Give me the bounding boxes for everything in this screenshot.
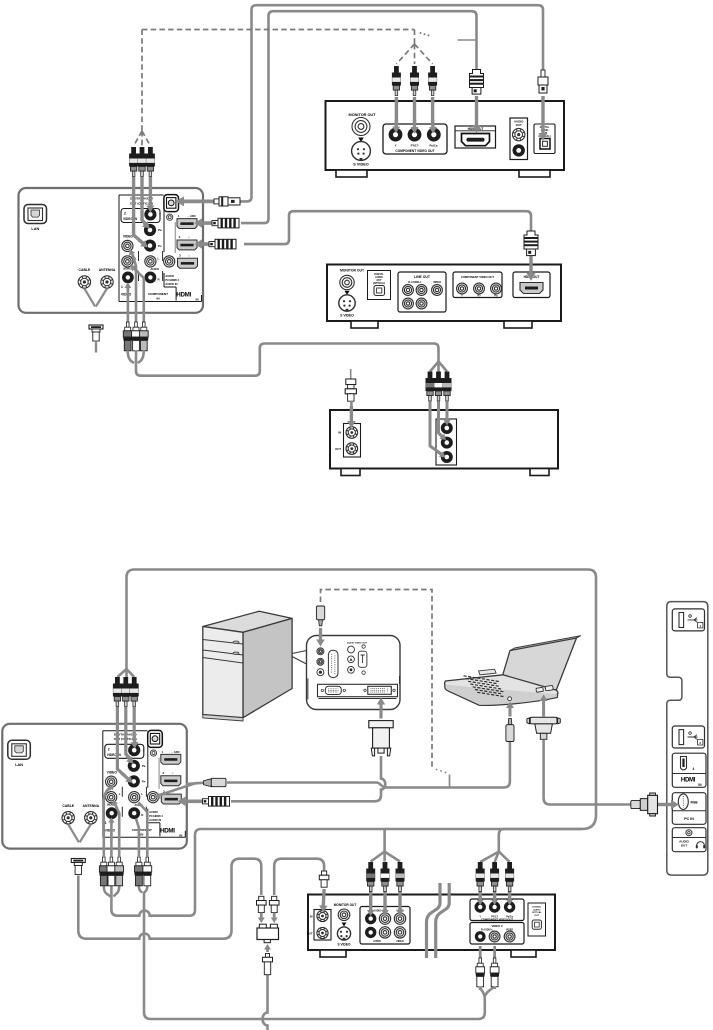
svg-text:OPTICAL: OPTICAL bbox=[532, 911, 542, 914]
dots on dashed cable bbox=[420, 32, 422, 34]
DVI plug into PC bbox=[377, 698, 385, 719]
device A component plug leads bbox=[395, 97, 398, 124]
optical plug into device A bbox=[539, 96, 548, 141]
device B component video out box bbox=[453, 272, 502, 298]
svg-text:VIDEO: VIDEO bbox=[396, 940, 404, 943]
PC DVI port bbox=[368, 686, 392, 694]
HDMI plug into TV1 port2 bbox=[195, 239, 212, 249]
device D cable box rear bbox=[308, 895, 555, 958]
RCA plugs below TV1 bbox=[123, 322, 132, 351]
TV2 component plug fan bbox=[117, 669, 134, 677]
device D optical out bbox=[528, 903, 546, 936]
PC VGA port bbox=[325, 686, 341, 694]
svg-text:COMPONENT VIDEO OUT: COMPONENT VIDEO OUT bbox=[461, 275, 494, 279]
TV1 video/audio cables to bottom plugs bbox=[132, 252, 137, 331]
svg-text:RGB: RGB bbox=[691, 801, 699, 805]
antenna splitter bbox=[257, 924, 279, 943]
TV side panel bbox=[667, 602, 708, 876]
RCA plugs into TV2 component in bbox=[113, 677, 122, 707]
svg-text:(OPTICAL): (OPTICAL) bbox=[373, 282, 385, 285]
callout pointer bbox=[292, 651, 306, 665]
TV2 video/audio jack leads to bottom plugs bbox=[104, 787, 112, 858]
device D AV plug leads bbox=[369, 887, 372, 913]
device B DVD player rear bbox=[327, 265, 561, 329]
svg-text:IN: IN bbox=[310, 915, 313, 919]
device B S VIDEO connector bbox=[339, 295, 355, 311]
wire component long TV2 to device D bbox=[127, 570, 597, 852]
svg-text:OUT: OUT bbox=[681, 844, 688, 848]
device A optical out port bbox=[534, 124, 555, 154]
TV2 antenna plug bbox=[71, 859, 85, 875]
PC video card bar bbox=[308, 676, 400, 700]
side panel USB 1 port bbox=[672, 609, 704, 631]
splitter feed plug bbox=[264, 944, 271, 952]
svg-text:R-AUDIO-L: R-AUDIO-L bbox=[408, 280, 422, 284]
device D RF box bbox=[314, 910, 331, 941]
HDMI plug into TV2 port3 bbox=[178, 797, 203, 807]
TV2 rear panel bbox=[2, 724, 187, 849]
side panel AUDIO OUT bbox=[672, 828, 706, 852]
PC audio dashed route bbox=[321, 590, 433, 768]
device A digital recorder rear bbox=[326, 101, 565, 177]
PC rear callout box bbox=[307, 636, 401, 710]
HDMI plug into device A bbox=[472, 96, 481, 133]
svg-text:OUT: OUT bbox=[307, 932, 313, 936]
svg-text:AUDIO: AUDIO bbox=[373, 940, 381, 943]
svg-text:IN: IN bbox=[338, 431, 341, 435]
RCA plugs into TV1 component in bbox=[129, 147, 138, 177]
svg-text:VIDEO 2: VIDEO 2 bbox=[491, 924, 502, 928]
laptop audio cable to TV2 bbox=[227, 741, 510, 788]
device B LINE OUT box bbox=[398, 272, 446, 312]
svg-text:DIGITAL: DIGITAL bbox=[533, 906, 542, 909]
laptop VGA cable to side panel bbox=[544, 740, 631, 805]
svg-text:MONITOR OUT: MONITOR OUT bbox=[340, 269, 365, 273]
wire AV fan2 TV2 to device D video2 bbox=[139, 886, 142, 893]
svg-text:OUT: OUT bbox=[534, 915, 539, 917]
device A component video out box bbox=[383, 124, 447, 154]
RCA plugs into device D video2 from below bbox=[479, 946, 482, 958]
wire HDMI cable TV1 port1 to device A bbox=[241, 11, 477, 223]
dashed fan to device A component plugs bbox=[396, 30, 432, 65]
RCA plugs below TV2 bbox=[99, 857, 108, 886]
dashed drop to TV1 component plugs bbox=[141, 30, 143, 132]
PC tower bbox=[203, 611, 292, 721]
device B HDMI OUT port bbox=[513, 272, 550, 298]
wire optical TV1 to device A bbox=[238, 5, 543, 201]
antenna arrow into device C RF in bbox=[347, 406, 356, 428]
splitter to device D RF in bbox=[274, 859, 324, 895]
HDMI-DVI cable from PC to TV2 port3 bbox=[231, 756, 385, 801]
TV2 antenna cable to splitter bbox=[78, 859, 261, 939]
side panel USB 2 port bbox=[672, 726, 704, 748]
svg-text:Pʔ/Cʔ: Pʔ/Cʔ bbox=[411, 144, 419, 148]
svg-text:COMPONENT VIDEO OUT: COMPONENT VIDEO OUT bbox=[481, 917, 513, 921]
device D AV box bbox=[360, 907, 410, 945]
svg-text:S VIDEO: S VIDEO bbox=[340, 314, 354, 318]
svg-text:R-AUDIO-L: R-AUDIO-L bbox=[481, 929, 494, 932]
VGA plug into side panel bbox=[655, 800, 679, 809]
svg-text:PC IN: PC IN bbox=[684, 817, 694, 821]
svg-text:S VIDEO: S VIDEO bbox=[353, 163, 368, 167]
splitter input plugs bbox=[257, 896, 267, 912]
TV1 antenna cable plug bbox=[89, 325, 103, 341]
device C VCR rear bbox=[330, 410, 558, 476]
svg-text:OUT: OUT bbox=[335, 447, 341, 451]
wire AV fan1 TV2 to device D audio-video bbox=[104, 886, 111, 897]
device D component plug leads bbox=[479, 887, 482, 902]
RCA plugs into device A component out bbox=[392, 66, 401, 96]
svg-text:S VIDEO: S VIDEO bbox=[338, 943, 351, 947]
svg-text:AUDIO VIDEO OUT: AUDIO VIDEO OUT bbox=[347, 642, 367, 645]
loose cables crossing device D bbox=[427, 883, 441, 958]
optical plug into TV1 bbox=[176, 196, 215, 206]
svg-text:VIDEO: VIDEO bbox=[433, 280, 441, 284]
TV2 component plug leads bbox=[133, 707, 136, 741]
HDMI plug into TV1 port1 bbox=[195, 218, 215, 228]
audio plug into TV2 bbox=[186, 783, 205, 784]
device A AUDIO OUT jacks bbox=[510, 118, 528, 160]
TV1 rear panel bbox=[19, 188, 204, 313]
PC serial port bbox=[328, 650, 338, 677]
svg-text:HDMI: HDMI bbox=[681, 778, 696, 784]
dashed component video cable left run bbox=[142, 29, 415, 31]
F plug into device D RF in bbox=[319, 871, 329, 887]
PC audio jacks bbox=[317, 648, 324, 655]
device A S VIDEO connector bbox=[352, 142, 371, 161]
PC audio plug bbox=[316, 606, 324, 620]
svg-text:4: 4 bbox=[693, 767, 695, 771]
svg-text:LINE OUT: LINE OUT bbox=[414, 275, 431, 279]
side panel HDMI 4 port bbox=[672, 753, 706, 787]
laptop VGA plug bbox=[540, 695, 548, 717]
svg-text:Pʁ/Cʁ: Pʁ/Cʁ bbox=[430, 144, 438, 148]
wire HDMI cable TV1 port2 to device B bbox=[244, 211, 531, 244]
device C RF in/out box bbox=[344, 424, 361, 458]
device C AV plug leads bbox=[430, 402, 442, 455]
device D VIDEO 2 box bbox=[470, 923, 524, 945]
device C AV in box bbox=[436, 419, 457, 465]
PC audio diagonal into TV2 bbox=[157, 783, 198, 796]
RCA plugs into device D AV bbox=[366, 862, 375, 892]
svg-text:COMPONENT VIDEO OUT: COMPONENT VIDEO OUT bbox=[395, 149, 434, 153]
svg-text:AUDIO: AUDIO bbox=[533, 908, 540, 911]
side panel PC IN RGB port bbox=[672, 793, 706, 825]
svg-text:MONITOR OUT: MONITOR OUT bbox=[334, 903, 357, 907]
device A HDMI OUT port bbox=[455, 126, 496, 148]
antenna lead into device C bbox=[350, 369, 352, 379]
laptop bbox=[445, 636, 581, 706]
svg-text:Y: Y bbox=[395, 144, 397, 148]
RCA plugs into device C AV in bbox=[426, 372, 435, 402]
TV1 component cables into Y Pb Pr bbox=[149, 177, 152, 205]
svg-text:OUT: OUT bbox=[516, 123, 522, 127]
device B optical out bbox=[368, 271, 391, 300]
laptop audio plug bbox=[506, 702, 514, 717]
splitter feed cable bbox=[263, 974, 268, 1030]
composite AV cable TV1 to device C bbox=[128, 351, 134, 364]
svg-text:MONITOR OUT: MONITOR OUT bbox=[349, 113, 377, 117]
svg-text:Pʁ: Pʁ bbox=[494, 294, 498, 297]
HDMI plug into device B bbox=[527, 252, 536, 281]
callout tick line bbox=[458, 39, 477, 41]
device D component out box bbox=[470, 899, 524, 921]
RCA plugs into device D component out bbox=[476, 862, 485, 892]
